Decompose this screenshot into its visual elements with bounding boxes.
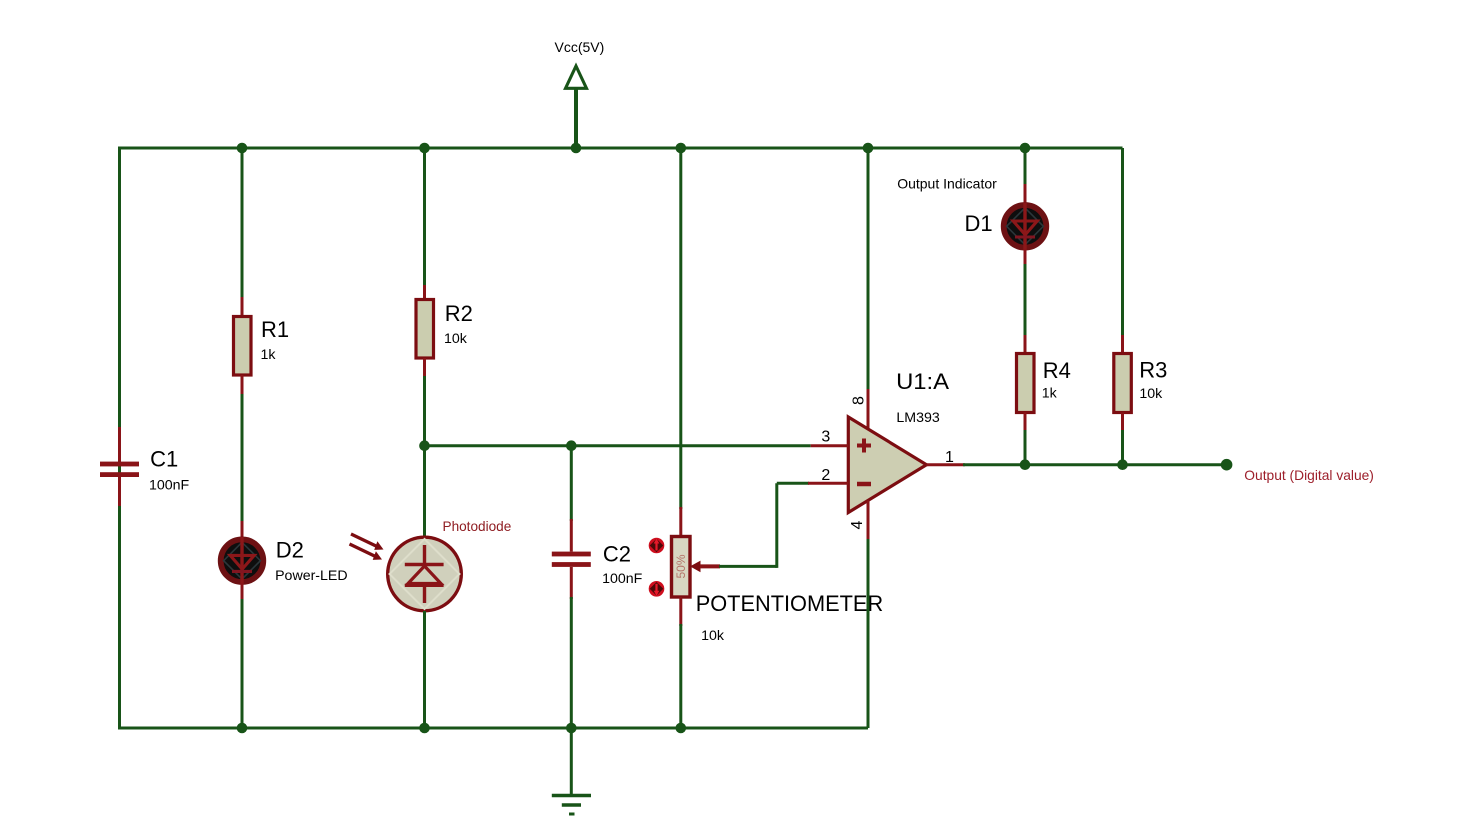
- node junction pin3 wire at C2 branch: [566, 440, 577, 451]
- op-amp U1:A: [848, 417, 926, 513]
- svg-text:R4: R4: [1043, 358, 1071, 383]
- node junction top rail Vcc: [571, 143, 582, 154]
- svg-text:R3: R3: [1139, 358, 1167, 383]
- node junction bottom rail R2 branch: [419, 723, 430, 734]
- svg-text:3: 3: [821, 429, 830, 446]
- svg-text:1k: 1k: [1042, 386, 1058, 402]
- svg-text:Photodiode: Photodiode: [443, 519, 512, 534]
- wire D1 branch upper: [1024, 148, 1027, 186]
- wire pin3 net horizontal: [425, 444, 811, 447]
- wire photodiode to bottom rail: [423, 611, 426, 728]
- pin 3 lead: [811, 444, 849, 447]
- svg-text:LM393: LM393: [896, 410, 939, 426]
- svg-text:100nF: 100nF: [602, 571, 643, 587]
- LED D2: [221, 521, 264, 601]
- capacitor C1: [100, 427, 139, 506]
- svg-text:R2: R2: [445, 301, 473, 326]
- wire R1 branch upper: [241, 148, 244, 299]
- wire POT to bottom rail: [679, 624, 682, 728]
- wire bottom rail GND: [118, 727, 868, 730]
- wire R1 to D2: [241, 394, 244, 523]
- wire R3 branch upper: [1121, 148, 1124, 337]
- wire R2 branch upper: [423, 148, 426, 287]
- ground symbol: [552, 728, 591, 814]
- svg-text:Output (Digital value): Output (Digital value): [1244, 468, 1374, 483]
- svg-text:D2: D2: [276, 538, 304, 563]
- photodiode D3: [388, 537, 462, 611]
- svg-text:8: 8: [851, 396, 868, 405]
- node junction output at R3: [1117, 459, 1128, 470]
- wire R2 to photodiode: [423, 376, 426, 538]
- resistor R4: [1017, 335, 1035, 432]
- svg-text:Power-LED: Power-LED: [275, 568, 348, 584]
- wire POT branch upper: [679, 148, 682, 509]
- node junction top rail R1: [237, 143, 248, 154]
- svg-text:D1: D1: [965, 211, 993, 236]
- pin 8 lead: [867, 389, 870, 430]
- node junction top rail U1: [863, 143, 874, 154]
- svg-text:10k: 10k: [1139, 386, 1163, 402]
- wire R4 to output: [1024, 430, 1027, 465]
- capacitor C2: [552, 519, 591, 599]
- svg-text:10k: 10k: [444, 331, 468, 347]
- pin 2 lead: [808, 482, 848, 485]
- node junction bottom rail POT branch: [676, 723, 687, 734]
- power symbol Vcc(5V): [566, 66, 587, 148]
- svg-text:Output Indicator: Output Indicator: [897, 176, 997, 192]
- pot increase button: [649, 538, 665, 554]
- svg-text:U1:A: U1:A: [896, 369, 949, 394]
- node junction output at R4: [1020, 459, 1031, 470]
- svg-text:50%: 50%: [674, 554, 688, 578]
- wire U1 pin8 upper: [867, 148, 870, 391]
- wire C2 to bottom rail: [570, 597, 573, 728]
- LED D1: [1004, 184, 1047, 266]
- node junction top rail D1: [1020, 143, 1031, 154]
- pin 4 lead: [867, 501, 870, 542]
- svg-text:C2: C2: [603, 542, 631, 567]
- pot decrease button: [649, 581, 665, 597]
- svg-text:100nF: 100nF: [149, 477, 190, 493]
- svg-text:2: 2: [821, 467, 830, 484]
- wire D2 to bottom rail: [241, 599, 244, 728]
- light arrow 2 into photodiode: [350, 544, 383, 560]
- svg-text:Vcc(5V): Vcc(5V): [555, 39, 605, 55]
- node junction pin3 wire at R2 branch: [419, 440, 430, 451]
- svg-text:1k: 1k: [261, 347, 277, 363]
- node junction bottom rail R1 branch: [237, 723, 248, 734]
- resistor R1: [234, 297, 252, 396]
- svg-text:R1: R1: [261, 317, 289, 342]
- wire left rail: [118, 148, 121, 728]
- wire output net: [963, 463, 1227, 466]
- wire wiper to pin2: [719, 483, 809, 568]
- pin 1 lead: [927, 463, 966, 466]
- node junction top rail R2: [419, 143, 430, 154]
- pot wiper arrow: [690, 561, 720, 573]
- node output terminal: [1221, 459, 1233, 471]
- wire U1 pin4 to bottom rail: [867, 539, 870, 728]
- resistor R3: [1114, 335, 1132, 432]
- wire D1 to R4: [1024, 264, 1027, 337]
- svg-text:POTENTIOMETER: POTENTIOMETER: [696, 591, 884, 616]
- svg-text:1: 1: [945, 449, 954, 466]
- wire R3 to output: [1121, 430, 1124, 465]
- light arrow 1 into photodiode: [351, 534, 384, 550]
- wire C2 branch upper: [570, 446, 573, 521]
- node junction bottom rail C2/ground: [566, 723, 577, 734]
- svg-text:10k: 10k: [701, 628, 725, 644]
- wire top rail VCC: [118, 147, 1123, 150]
- resistor R2: [416, 285, 434, 378]
- potentiometer RV1 body: [672, 507, 691, 626]
- node junction top rail POT: [676, 143, 687, 154]
- svg-text:4: 4: [849, 520, 866, 529]
- svg-text:C1: C1: [150, 446, 178, 471]
